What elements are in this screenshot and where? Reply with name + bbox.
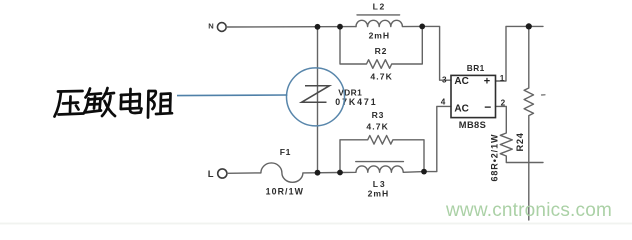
svg-text:68R•2/1W: 68R•2/1W — [490, 134, 500, 182]
svg-text:+: + — [484, 75, 490, 87]
svg-text:AC: AC — [454, 103, 468, 114]
svg-text:R24: R24 — [515, 132, 525, 151]
svg-text:R2: R2 — [375, 46, 388, 56]
svg-text:L: L — [208, 169, 215, 180]
svg-text:N: N — [208, 22, 214, 31]
svg-text:VDR1: VDR1 — [338, 87, 362, 97]
svg-text:3: 3 — [442, 75, 447, 84]
svg-text:2mH: 2mH — [369, 31, 390, 41]
svg-text:4.7K: 4.7K — [366, 122, 389, 132]
svg-text:10R/1W: 10R/1W — [266, 187, 304, 197]
svg-text:www.cntronics.com: www.cntronics.com — [445, 200, 612, 221]
svg-text:L2: L2 — [373, 2, 386, 12]
svg-text:2mH: 2mH — [368, 188, 390, 198]
svg-text:4: 4 — [441, 97, 446, 106]
svg-text:2: 2 — [501, 99, 506, 108]
svg-text:1: 1 — [500, 74, 505, 83]
svg-text:4.7K: 4.7K — [370, 72, 393, 82]
svg-text:−: − — [484, 100, 491, 114]
svg-text:MB8S: MB8S — [459, 120, 486, 130]
svg-text:AC: AC — [454, 76, 468, 87]
svg-text:F1: F1 — [280, 147, 291, 157]
svg-text:BR1: BR1 — [467, 63, 485, 73]
svg-text:R3: R3 — [372, 110, 385, 120]
svg-text:07K471: 07K471 — [335, 97, 377, 107]
